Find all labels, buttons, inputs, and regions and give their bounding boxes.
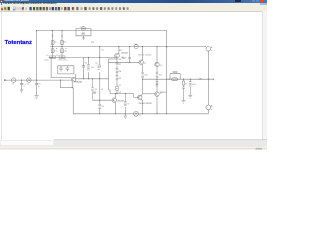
- VAS transistor: [115, 53, 120, 58]
- svg-text:2N5551: 2N5551: [121, 52, 129, 54]
- current source I1 arrow: [135, 113, 136, 115]
- mirror comp 1b: [93, 92, 96, 93]
- ground below rail at x=125.3: [124, 114, 128, 119]
- rect box of caps: [58, 66, 74, 74]
- svg-text:500u 500u: 500u 500u: [58, 60, 67, 62]
- menu bar: [0, 3, 267, 6]
- transistor Q5 pins: [156, 63, 158, 66]
- title bar: [0, 0, 267, 3]
- transistor Q8 pins: [139, 96, 141, 99]
- svg-text:R10: R10: [144, 75, 147, 77]
- input wire: [5, 79, 71, 81]
- mirror comp 2a: [98, 64, 101, 69]
- svg-text:R12: R12: [119, 50, 122, 52]
- wire y=77.6 to Q1: [51, 77, 71, 79]
- bias blob4: [116, 86, 119, 90]
- signal source sine mark: [13, 80, 15, 81]
- wire y=98.9 joining mirrors: [93, 99, 113, 101]
- source V6 marks: [211, 105, 212, 109]
- mirror comp 1a: [87, 65, 90, 70]
- junction dots: [21, 30, 209, 114]
- speaker / load source V6: [206, 105, 211, 110]
- wire left vertical: [36, 31, 38, 81]
- svg-text:in: in: [23, 86, 24, 88]
- svg-text:2N5401: 2N5401: [117, 101, 124, 103]
- VAS wire y=60.7: [109, 61, 140, 63]
- svg-text:R6: R6: [102, 106, 104, 108]
- source2 marks: [28, 80, 30, 81]
- bias blob3: [116, 76, 119, 80]
- current source arrow x=62: [61, 35, 63, 37]
- source V4 inner mark: [135, 46, 137, 48]
- parallel R bracket: [170, 74, 180, 80]
- circle source on wire 46.6: [134, 44, 138, 48]
- supply source V1 inner marks: [82, 27, 84, 30]
- ground at x=21.6: [20, 90, 23, 92]
- svg-text:Q2: Q2: [95, 63, 98, 65]
- svg-text:R5: R5: [95, 89, 97, 91]
- source2 circle: [27, 78, 31, 82]
- svg-text:R2: R2: [64, 42, 66, 44]
- svg-text:2N5401: 2N5401: [75, 82, 83, 84]
- wire right vertical (main right bus): [166, 31, 168, 114]
- svg-text:100n: 100n: [192, 84, 196, 86]
- svg-text:10u: 10u: [54, 51, 57, 53]
- wire column x=83.5: [83, 57, 85, 65]
- svg-text:V1: V1: [12, 84, 14, 86]
- cap Ca in box: [59, 66, 63, 72]
- transistor Q1 pins: [72, 78, 74, 82]
- ground zobel 2: [188, 96, 192, 99]
- svg-text:V3: V3: [80, 26, 82, 28]
- transistor Q4 pins: [140, 61, 142, 64]
- wire Q down to rail: [110, 90, 139, 114]
- transistor Q1: [71, 77, 76, 82]
- window client borders: [0, 10, 267, 13]
- dark labels: [75, 50, 203, 83]
- bias bypass bracket: [109, 59, 118, 90]
- RL label blob: [173, 71, 178, 72]
- series source in bottom rail: [134, 111, 139, 116]
- wire R11 to output node: [156, 78, 158, 80]
- svg-text:1k: 1k: [38, 86, 40, 88]
- current source column x=52.6 wire: [52, 31, 54, 58]
- ground at x=36.5: [34, 96, 38, 99]
- left of right-bus components: [156, 82, 159, 86]
- zobel C x=190.3: [189, 79, 192, 95]
- component on column x=83.5: [82, 38, 84, 40]
- wire below V1: [83, 36, 85, 38]
- upper driver Q3: [155, 62, 159, 66]
- top rail wire: [37, 30, 167, 32]
- lower driver Q4: [138, 95, 142, 99]
- svg-text:C5+: C5+: [46, 55, 50, 57]
- bias blob2: [116, 69, 119, 73]
- wires lower drivers: [141, 79, 157, 114]
- cap Cb in box: [66, 66, 70, 72]
- emitter resistor x=157: [156, 67, 158, 78]
- svg-text:D1: D1: [119, 85, 121, 87]
- tiny value labels (gray): [12, 26, 213, 116]
- transistor Q6 VAS pins: [116, 54, 118, 57]
- output wire: [143, 78, 209, 80]
- transistor Q3 pins: [113, 98, 115, 101]
- svg-text:I1: I1: [139, 115, 141, 117]
- svg-text:10: 10: [185, 83, 187, 85]
- svg-text:out: out: [199, 78, 202, 81]
- capacitor C6 body on mid wire: [59, 56, 65, 59]
- component blobs column x=62: [61, 41, 64, 53]
- lower mirror transistor Q: [112, 98, 116, 102]
- mirror comp 2b: [91, 79, 93, 100]
- component blobs column x=52.6: [51, 41, 54, 53]
- right bus vertical: [207, 51, 209, 104]
- out stub: [208, 78, 214, 80]
- svg-text:2N5551: 2N5551: [160, 92, 167, 94]
- svg-text:D2: D2: [119, 92, 121, 94]
- bias blob1: [116, 62, 119, 65]
- cap C at x=21.6: [20, 80, 23, 90]
- comp cap above wire x=129.3: [128, 47, 131, 63]
- transistor Q7 pins: [156, 92, 158, 95]
- svg-text:V4: V4: [135, 44, 137, 46]
- wire rect to Q1: [75, 74, 77, 79]
- wire mid horizontal: [49, 56, 118, 58]
- toolbar: [0, 6, 267, 11]
- svg-text:40: 40: [81, 34, 83, 36]
- wire Q1 emitter down: [71, 82, 73, 88]
- input port: [4, 80, 5, 81]
- svg-text:R4: R4: [85, 63, 87, 65]
- ground zobel 1: [182, 101, 186, 104]
- mirror column x=88.4: [87, 57, 89, 78]
- svg-text:R7: R7: [119, 64, 121, 66]
- svg-text:C9: C9: [127, 104, 129, 106]
- svg-text:R3: R3: [91, 42, 93, 44]
- emitter resistor x=140.4: [141, 72, 143, 78]
- wire column x=83.5 lower: [83, 71, 85, 79]
- svg-text:1k: 1k: [101, 89, 103, 91]
- svg-text:Q4: Q4: [144, 62, 147, 64]
- V+ circle source: [206, 47, 211, 52]
- svg-text:V2: V2: [27, 84, 29, 86]
- zobel R x=183.5: [182, 79, 185, 100]
- svg-text:R1: R1: [54, 42, 56, 44]
- source V5 plus minus marks: [211, 47, 212, 51]
- capacitor C5 body on mid wire: [50, 56, 56, 59]
- svg-text:R8: R8: [119, 71, 121, 73]
- wire x=51.5 down: [50, 57, 52, 77]
- bias chain x=117: [117, 47, 119, 94]
- current source arrow x=52.6: [52, 35, 54, 37]
- mirror column x=98.7: [99, 47, 101, 114]
- lower driver Q5: [155, 92, 159, 96]
- bottom chrome: [54, 139, 267, 142]
- signal source V2 circle: [12, 78, 16, 82]
- wire y=46.6: [50, 46, 206, 48]
- supply source V1 lower element: [82, 33, 85, 34]
- svg-text:R11: R11: [159, 75, 162, 77]
- upper driver Q2: [139, 60, 143, 64]
- wire R10 to output node: [142, 78, 144, 80]
- supply source V1 box: [76, 29, 91, 36]
- supply source V1 circle: [82, 27, 86, 31]
- bottom rail: [73, 113, 208, 115]
- cap C at x=36.5: [35, 80, 38, 95]
- feedback left vertical: [72, 88, 74, 114]
- svg-text:2N5551 2N5401: 2N5551 2N5401: [138, 55, 152, 57]
- polarity plus marks C5 C6: [56, 47, 67, 49]
- svg-text:10u: 10u: [64, 51, 67, 53]
- output inductor oval: [172, 78, 178, 81]
- capacitor C7 value label: [122, 58, 126, 59]
- wires Q2: [143, 47, 157, 72]
- wire lower driver bases: [143, 93, 155, 95]
- svg-text:2N5401 2N5551: 2N5401 2N5551: [138, 103, 152, 105]
- svg-text:Q5: Q5: [160, 65, 163, 67]
- svg-text:470: 470: [91, 67, 94, 69]
- svg-text:8: 8: [211, 107, 212, 109]
- bias cap column x=125.3: [124, 94, 127, 114]
- svg-text:500u: 500u: [44, 60, 48, 62]
- svg-text:1k5: 1k5: [101, 50, 104, 52]
- wire y=76.8: [76, 78, 109, 80]
- wire V6 to bottom rail: [207, 104, 209, 114]
- wire y=87.7: [60, 87, 73, 89]
- capacitor C on column x=83.5: [82, 65, 85, 71]
- wire x=60.3: [59, 80, 61, 88]
- svg-text:R9: R9: [119, 78, 121, 80]
- tail resistor x=93.5: [99, 104, 102, 108]
- current source column x=62 wire: [61, 31, 63, 58]
- svg-text:Totentanz: Totentanz: [5, 40, 32, 46]
- toolbar icons: [1, 7, 129, 11]
